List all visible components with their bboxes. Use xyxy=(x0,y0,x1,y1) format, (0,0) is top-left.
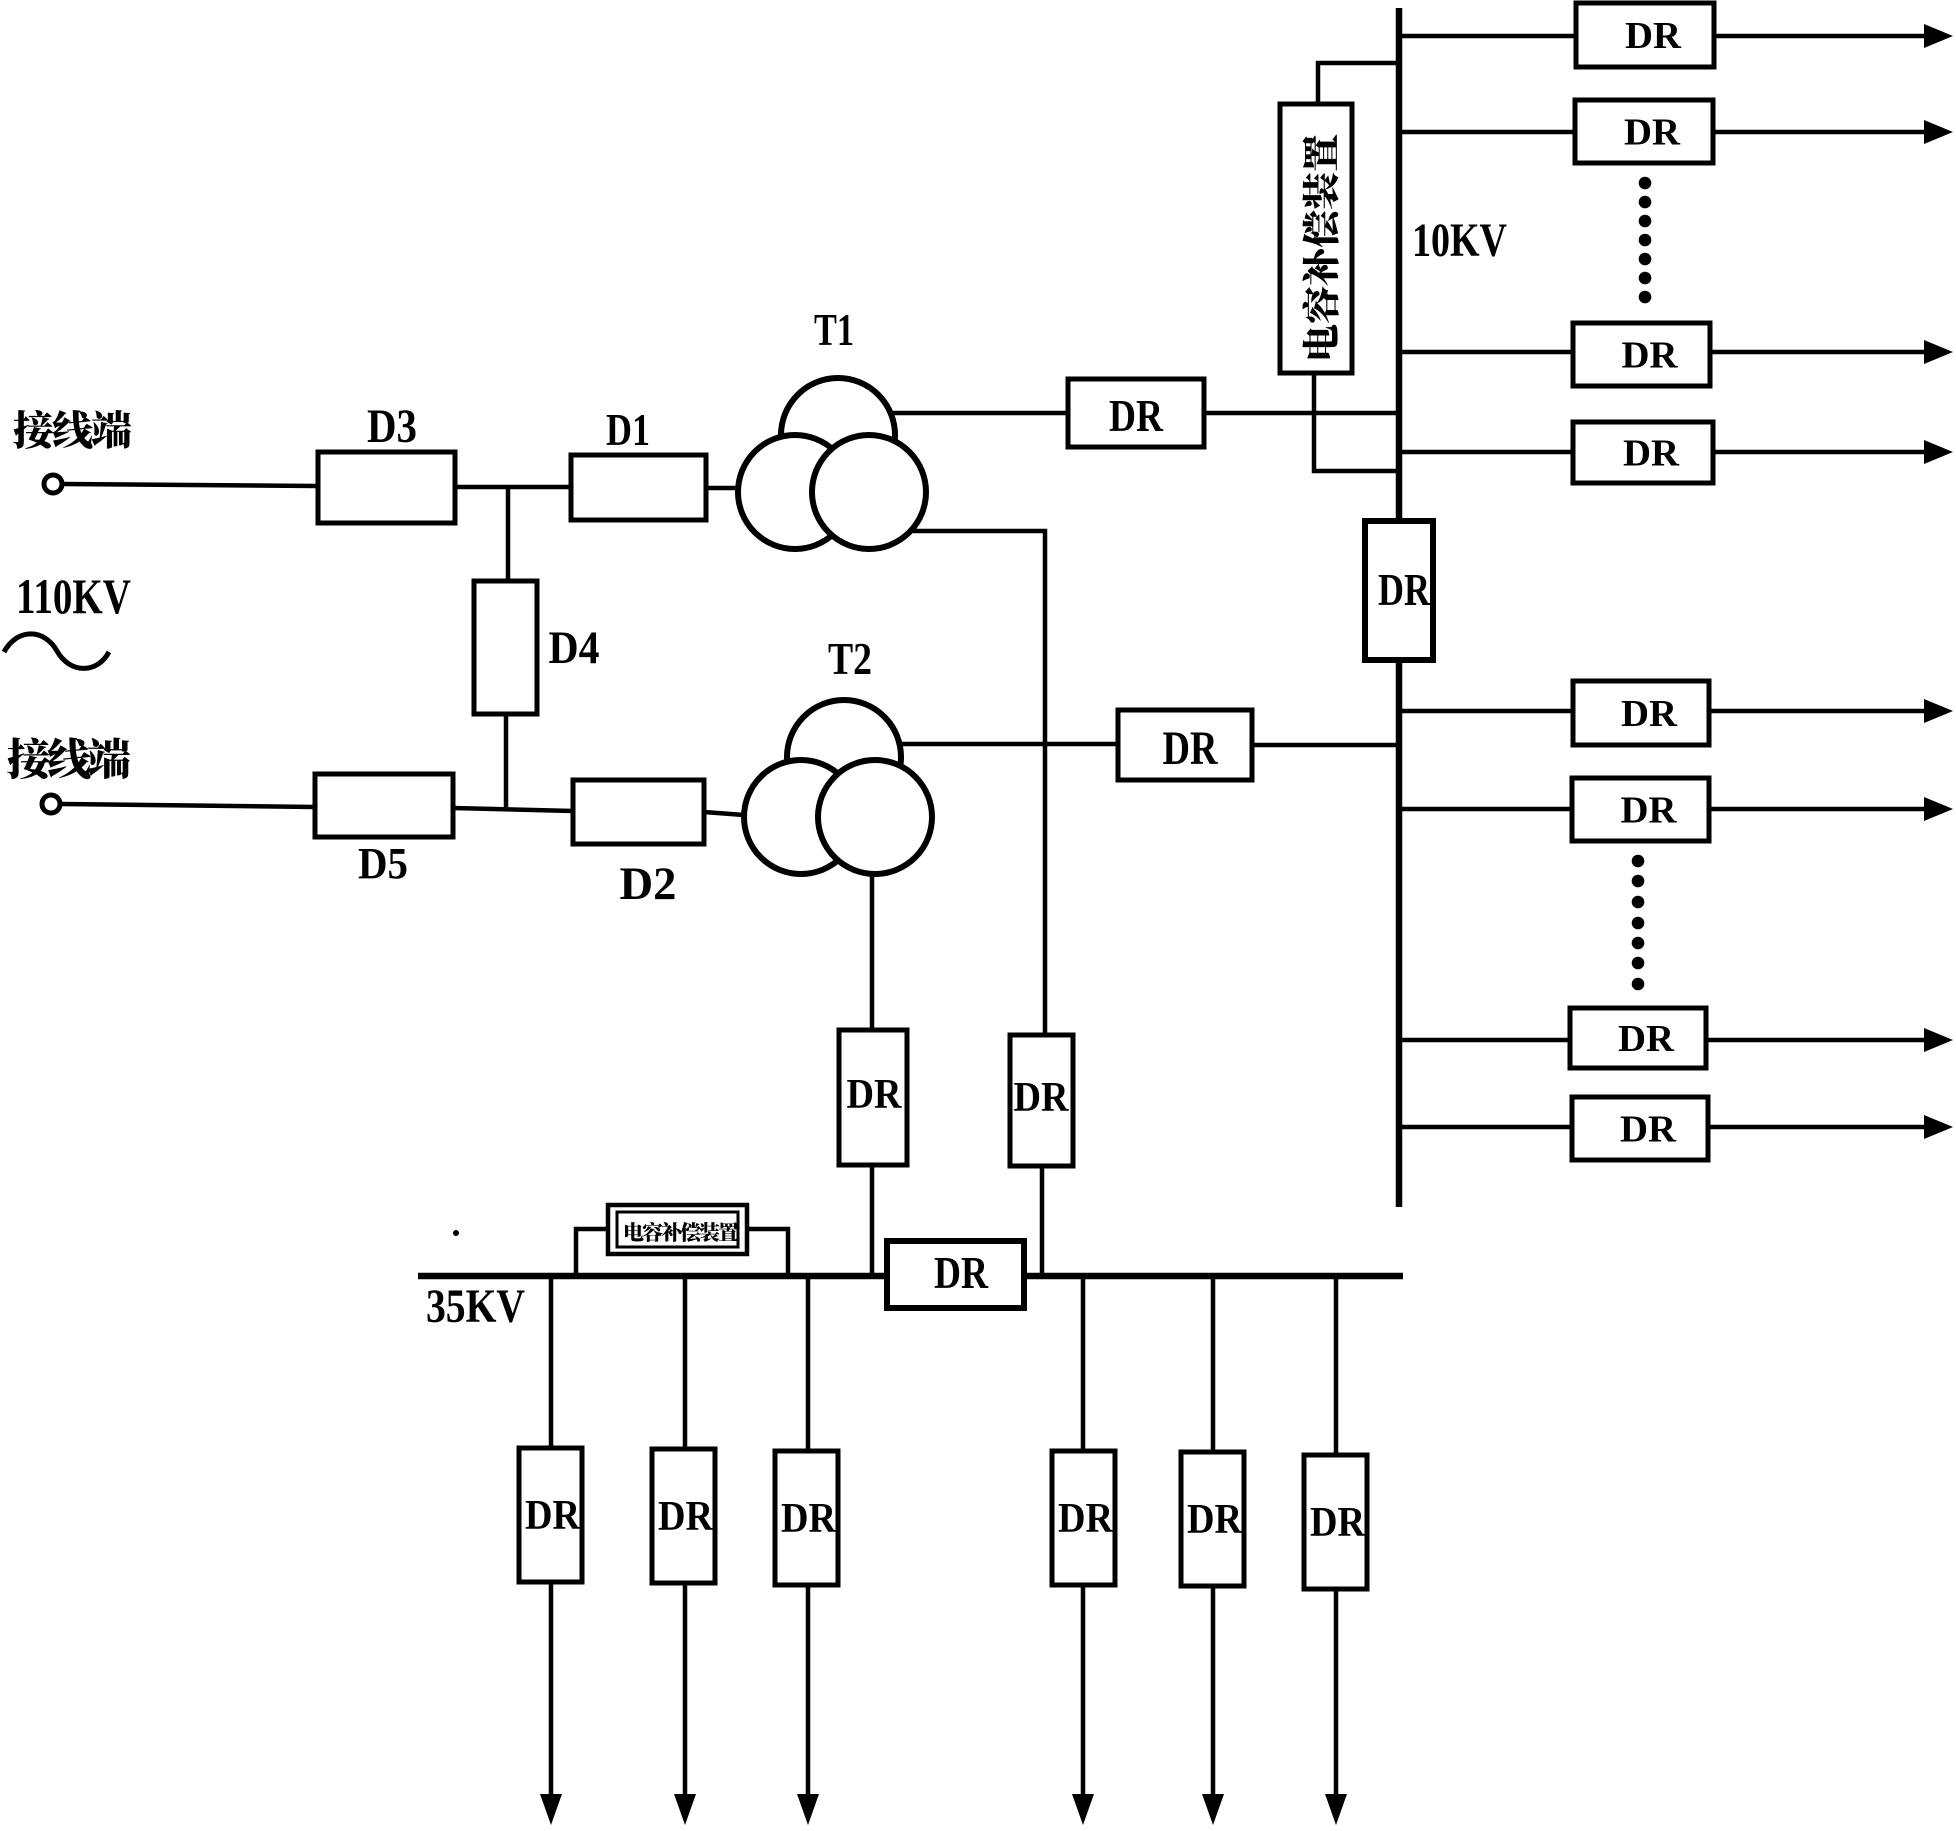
wire feeder 6 outgoing xyxy=(1709,807,1926,812)
capacitor compensation device (35KV) outer box xyxy=(608,1205,747,1254)
svg-text:D4: D4 xyxy=(549,622,600,674)
35KV feeder 5 arrowhead xyxy=(1202,1794,1224,1825)
svg-text:35KV: 35KV xyxy=(426,1280,525,1333)
svg-text:10KV: 10KV xyxy=(1412,214,1507,267)
wire feeder 3 outgoing xyxy=(1710,350,1926,355)
svg-text:D5: D5 xyxy=(358,839,408,888)
svg-text:DR: DR xyxy=(934,1248,988,1298)
svg-text:DR: DR xyxy=(847,1072,903,1118)
node: upper incoming line terminal label 接线端 xyxy=(13,410,53,449)
wire 35KV bus down to 35KV feeder 6 DR xyxy=(1334,1276,1339,1455)
svg-text:D1: D1 xyxy=(606,405,650,455)
feeder 4 arrowhead xyxy=(1924,440,1953,464)
svg-text:D2: D2 xyxy=(620,858,677,910)
capacitor compensation device (35KV) inner box xyxy=(617,1212,738,1247)
wire D5 to D2 xyxy=(453,808,573,811)
wire 10KV bus to feeder 5 DR xyxy=(1399,709,1573,714)
node: lower incoming line terminal label 接线端 xyxy=(7,737,50,779)
recorder DR box (feeder 3) xyxy=(1573,323,1710,386)
svg-text:DR: DR xyxy=(1187,1497,1243,1543)
recorder DR (T2 10KV side) box xyxy=(1118,710,1252,780)
recorder DR box (feeder 7) xyxy=(1570,1008,1706,1068)
35KV feeder 3 arrowhead xyxy=(797,1794,819,1825)
recorder DR box (35KV feeder 6) xyxy=(1304,1455,1367,1589)
svg-text:T1: T1 xyxy=(814,304,854,355)
wire feeder 5 outgoing xyxy=(1709,709,1926,714)
wire T2 35KV output down xyxy=(870,876,875,1032)
recorder DR (T1 35KV feed, vertical) box xyxy=(1010,1035,1073,1166)
svg-text:DR: DR xyxy=(1621,790,1678,832)
svg-text:DR: DR xyxy=(1624,112,1681,154)
wire 10KV bus to feeder 8 DR xyxy=(1399,1125,1572,1130)
svg-text:DR: DR xyxy=(1058,1496,1114,1542)
AC source sine symbol xyxy=(4,634,109,669)
wire 10KV bus to feeder 6 DR xyxy=(1399,807,1572,812)
terminal 1 (110KV line 1 connection point) xyxy=(44,475,62,493)
feeder 7 arrowhead xyxy=(1924,1028,1953,1052)
feeder 8 arrowhead xyxy=(1924,1115,1953,1139)
svg-text:DR: DR xyxy=(1618,1018,1675,1060)
recorder DR box (feeder 2) xyxy=(1575,100,1713,163)
wire feeder 2 outgoing xyxy=(1713,130,1926,135)
capacitor compensation device (10KV) box xyxy=(1280,104,1352,373)
svg-text:DR: DR xyxy=(525,1493,581,1539)
recorder DR box (feeder 1) xyxy=(1576,3,1714,67)
svg-text:DR: DR xyxy=(1378,565,1430,615)
wire 35KV bus down to 35KV feeder 4 DR xyxy=(1081,1276,1086,1451)
wire capacitor-device (35KV) right stub xyxy=(747,1229,788,1276)
35KV feeder 2 arrowhead xyxy=(674,1794,696,1825)
svg-text:DR: DR xyxy=(1163,722,1219,775)
wire terminal2 to D5 xyxy=(62,804,315,807)
35KV feeder 6 arrowhead xyxy=(1325,1794,1347,1825)
wire 35KV feeder 2 outgoing down xyxy=(683,1583,688,1795)
35KV bus (horizontal) xyxy=(418,1273,1403,1280)
wire feeder 8 outgoing xyxy=(1708,1125,1926,1130)
wire D3 to D1 xyxy=(455,485,571,490)
svg-text:DR: DR xyxy=(1014,1075,1070,1121)
wire D1 to T1 xyxy=(706,486,738,491)
recorder DR box (35KV feeder 4) xyxy=(1052,1451,1115,1585)
wire 35KV feeder 3 outgoing down xyxy=(806,1585,811,1795)
10KV bus (vertical) xyxy=(1396,8,1403,1207)
recorder DR box (feeder 6) xyxy=(1572,778,1709,841)
svg-text:DR: DR xyxy=(781,1496,837,1542)
recorder DR (on 35KV bus) box xyxy=(887,1241,1024,1308)
svg-text:D3: D3 xyxy=(367,400,417,453)
recorder DR box (feeder 4) xyxy=(1573,422,1713,483)
wire D2 to T2 xyxy=(704,812,744,815)
wire 10KV bus to feeder 3 DR xyxy=(1399,350,1573,355)
wire junction stub down to D4 xyxy=(506,485,511,581)
wire 35KV feeder 6 outgoing down xyxy=(1334,1589,1339,1795)
svg-text:110KV: 110KV xyxy=(16,568,131,624)
ellipsis dots (lower feeders) xyxy=(1632,855,1645,991)
wire 35KV feeder 1 outgoing down xyxy=(549,1582,554,1795)
feeder 6 arrowhead xyxy=(1924,797,1953,821)
label 电容补偿装置 (35KV) xyxy=(625,1222,644,1241)
wire T1-DR down to 35KV bus xyxy=(1040,1166,1045,1277)
breaker D3 box xyxy=(318,452,455,523)
wire feeder 7 outgoing xyxy=(1706,1038,1926,1043)
recorder DR box (feeder 5) xyxy=(1573,681,1709,745)
wire capacitor-device (35KV) left stub xyxy=(576,1229,608,1276)
35KV feeder 1 arrowhead xyxy=(540,1794,562,1825)
wire DR to 10KV bus xyxy=(1204,411,1399,416)
wire feeder 4 outgoing xyxy=(1713,450,1926,455)
wire T2 10KV-out to DR xyxy=(901,742,1118,747)
svg-text:DR: DR xyxy=(1623,433,1680,475)
label 电容补偿装置 (vertical) xyxy=(1302,135,1338,359)
breaker D2 box xyxy=(573,780,704,844)
wire 10KV bus to feeder 2 DR xyxy=(1399,130,1575,135)
feeder 2 arrowhead xyxy=(1924,120,1953,144)
wire feeder 1 outgoing xyxy=(1714,34,1926,39)
recorder DR box (feeder 8) xyxy=(1572,1097,1708,1160)
recorder DR box (35KV feeder 5) xyxy=(1181,1452,1244,1586)
recorder DR (T2 35KV feed, vertical) box xyxy=(839,1030,907,1165)
terminal 2 (110KV line 2 connection point) xyxy=(42,795,60,813)
breaker D4 box (bus tie) xyxy=(474,581,537,714)
wire 35KV bus down to 35KV feeder 2 DR xyxy=(683,1276,688,1449)
wire 35KV bus down to 35KV feeder 1 DR xyxy=(549,1276,554,1448)
wire DR to 10KV bus (T2) xyxy=(1252,743,1399,748)
wire 10KV bus to feeder 1 DR xyxy=(1399,34,1576,39)
svg-text:DR: DR xyxy=(658,1494,714,1540)
wire 10KV bus to feeder 7 DR xyxy=(1399,1038,1570,1043)
recorder DR (T1 10KV side) box xyxy=(1068,379,1204,447)
wire capacitor-device bottom stub to bus xyxy=(1314,373,1399,471)
breaker D5 box xyxy=(315,774,453,837)
feeder 5 arrowhead xyxy=(1924,699,1953,723)
recorder DR (on 10KV bus, vertical) box xyxy=(1365,521,1433,660)
stray dot mark xyxy=(453,1230,459,1236)
svg-text:DR: DR xyxy=(1625,15,1682,57)
recorder DR box (35KV feeder 2) xyxy=(652,1449,715,1583)
recorder DR box (35KV feeder 1) xyxy=(519,1448,582,1582)
wire D4 down to lower line xyxy=(504,714,509,811)
feeder 3 arrowhead xyxy=(1924,340,1953,364)
svg-text:DR: DR xyxy=(1622,335,1679,377)
wire T2-DR down to 35KV bus xyxy=(870,1165,875,1277)
wire T1 second output down xyxy=(913,531,1045,1035)
transformer T2 (three overlapping circles) xyxy=(744,700,932,874)
wire 35KV bus down to 35KV feeder 3 DR xyxy=(806,1276,811,1451)
svg-text:DR: DR xyxy=(1109,391,1163,441)
svg-text:DR: DR xyxy=(1310,1500,1366,1546)
breaker D1 box xyxy=(571,455,706,520)
feeder 1 arrowhead xyxy=(1924,24,1953,48)
ellipsis dots (upper feeders) xyxy=(1639,177,1652,304)
svg-text:DR: DR xyxy=(1621,693,1678,735)
wire 35KV feeder 5 outgoing down xyxy=(1211,1586,1216,1795)
recorder DR box (35KV feeder 3) xyxy=(775,1451,838,1585)
svg-text:DR: DR xyxy=(1620,1109,1677,1151)
wire T1 HV-out to DR xyxy=(891,411,1068,416)
wire 10KV bus to feeder 4 DR xyxy=(1399,450,1573,455)
transformer T1 (three overlapping circles) xyxy=(738,378,926,549)
wire capacitor-device top stub to bus xyxy=(1318,63,1399,104)
35KV feeder 4 arrowhead xyxy=(1072,1794,1094,1825)
wire 35KV bus down to 35KV feeder 5 DR xyxy=(1211,1276,1216,1452)
wire 35KV feeder 4 outgoing down xyxy=(1081,1585,1086,1795)
wire terminal1 to D3 xyxy=(64,484,318,486)
svg-text:T2: T2 xyxy=(828,634,872,684)
